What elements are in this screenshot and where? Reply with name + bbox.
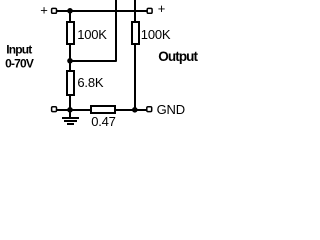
resistor 100K right body [131, 21, 140, 45]
svg-text:100K: 100K [77, 27, 107, 42]
wire top rail [57, 10, 147, 12]
wire left rail upper segment [69, 10, 71, 22]
svg-text:+: + [158, 1, 165, 16]
svg-text:6.8K: 6.8K [77, 75, 103, 90]
junction dot top left node [67, 8, 73, 14]
svg-text:0-70V: 0-70V [5, 56, 34, 70]
ground bar 3 [67, 123, 74, 125]
wire bottom rail right [114, 109, 147, 111]
wire node tap vertical [115, 0, 117, 62]
junction dot ground node right [132, 107, 138, 113]
resistor 100K left body [66, 21, 75, 45]
terminal input return [52, 107, 57, 112]
resistor 0.47 body [90, 105, 116, 114]
svg-text:Output: Output [158, 49, 198, 64]
terminal GND [147, 107, 152, 112]
svg-text:0.47: 0.47 [91, 114, 116, 129]
wire ground stub [69, 109, 71, 118]
wire right rail upper stub [134, 0, 136, 22]
svg-text:Input: Input [6, 43, 32, 57]
ground bar 2 [64, 120, 77, 122]
junction dot ground node left [67, 107, 73, 113]
wire node tap horizontal [69, 60, 117, 62]
terminal + output [147, 8, 152, 13]
svg-text:100K: 100K [141, 27, 171, 42]
wire left rail lower segment [69, 94, 71, 110]
svg-text:+: + [40, 3, 47, 18]
terminal + input [52, 8, 57, 13]
wire right rail lower segment [134, 44, 136, 110]
junction dot divider node [67, 58, 73, 64]
resistor 6.8K body [66, 70, 75, 96]
ground bar 1 [62, 117, 79, 119]
wire left rail middle segment [69, 44, 71, 71]
svg-text:GND: GND [157, 102, 185, 117]
wire bottom rail left [57, 109, 92, 111]
